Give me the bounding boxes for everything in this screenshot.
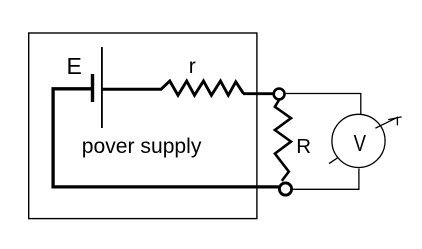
svg-text:E: E [67,53,82,79]
wire: battery positive to resistor r [103,88,163,91]
svg-text:pover supply: pover supply [82,135,202,158]
needle arrowhead horizontal barb [388,117,401,120]
power supply box outline [29,33,257,219]
bottom terminal node (open circle) [279,183,291,195]
top terminal node (open circle) [274,89,285,100]
resistor r zigzag [161,81,244,95]
battery E positive plate (long) [101,47,103,128]
wire: battery negative to left and down and along bottom to bottom terminal [53,89,278,187]
svg-text:V: V [354,130,367,156]
voltmeter needle upper-right segment [375,117,397,128]
svg-text:r: r [189,55,196,78]
svg-text:R: R [296,135,311,158]
voltmeter needle lower-left segment [329,157,338,163]
needle arrowhead vertical barb [396,117,398,126]
wire: resistor r to top terminal [243,92,273,95]
voltmeter V body circle [332,114,385,167]
resistor R zigzag [275,100,291,181]
wire: bottom terminal to voltmeter bottom [293,168,359,189]
wire: top terminal to voltmeter top [286,94,361,115]
battery E negative plate (short thick) [91,74,94,102]
